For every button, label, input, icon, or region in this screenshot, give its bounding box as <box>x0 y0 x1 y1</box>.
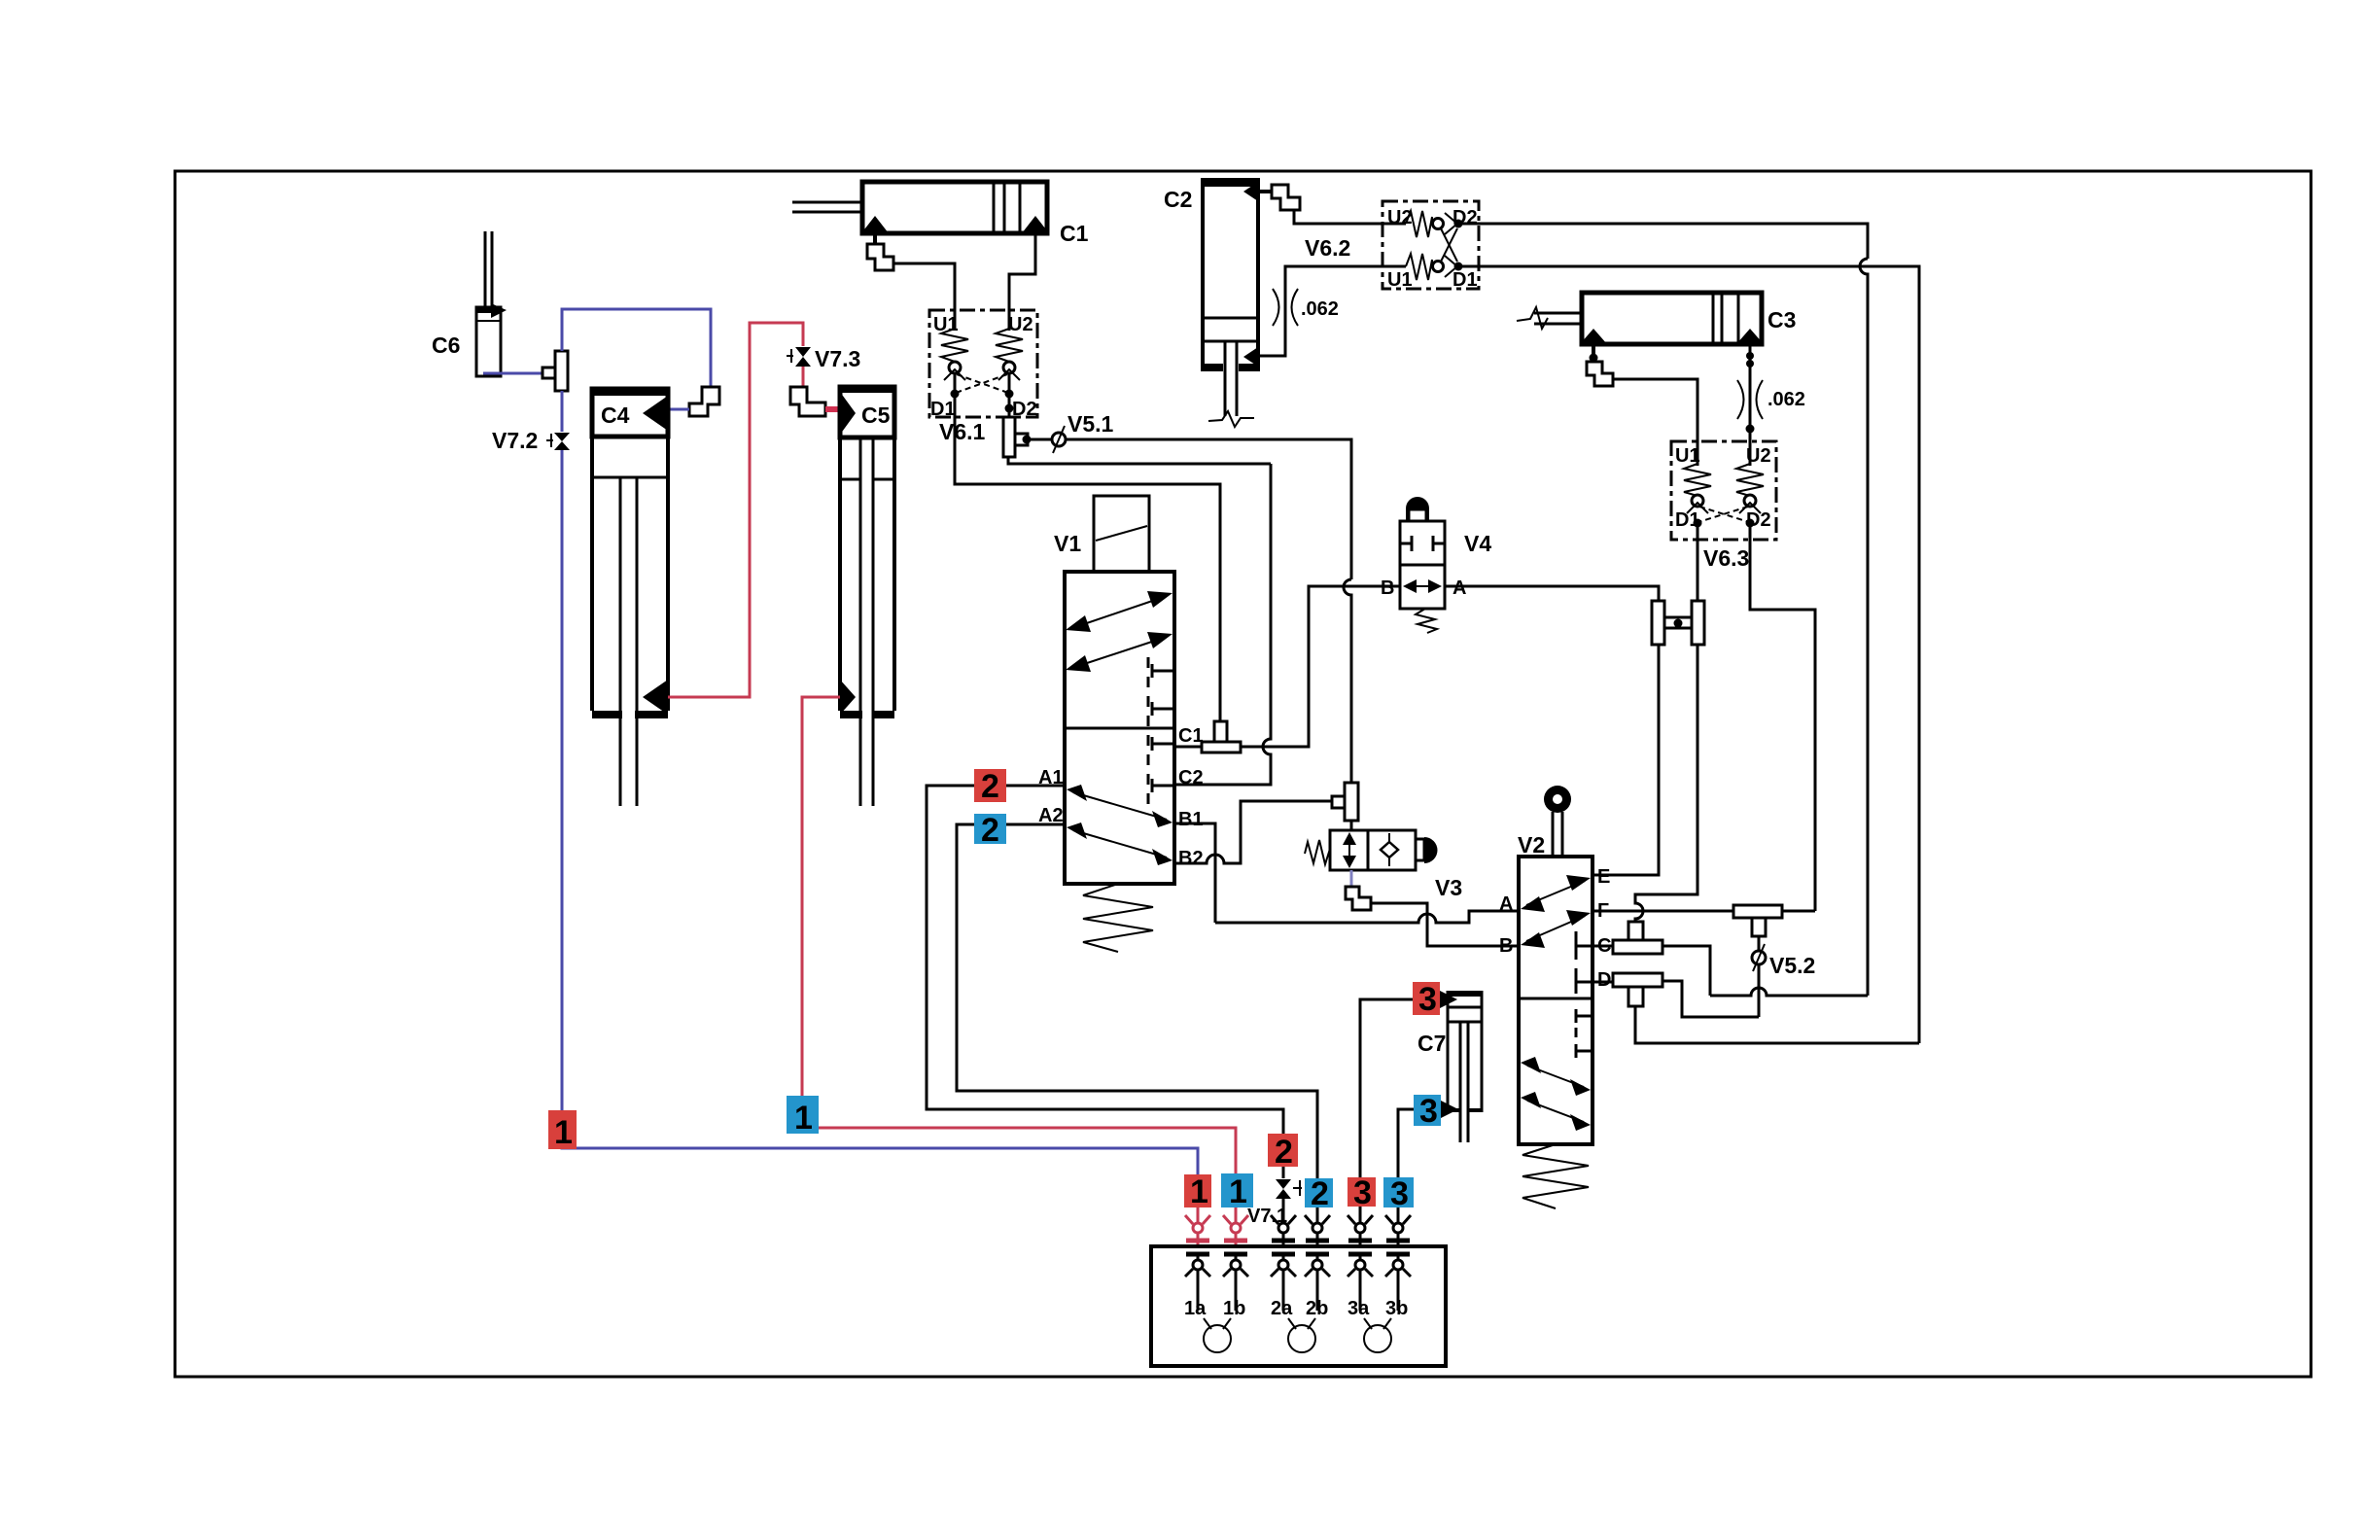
red wire V7.3 down to elbow <box>802 367 805 389</box>
wire V6.2 D2 right then down right rail <box>1458 224 1868 259</box>
svg-text:V7.2: V7.2 <box>492 428 538 453</box>
hop on rail at y=274 then down to 1024 <box>1860 259 1868 996</box>
wire V1 C2 port right and up rail with hop at C1 line <box>1174 464 1271 785</box>
elbow fitting at C4 top <box>689 387 719 416</box>
svg-text:.062: .062 <box>1767 389 1805 410</box>
wire D tee right branch to V5.2 bottom <box>1662 981 1759 1017</box>
svg-text:D1: D1 <box>930 399 956 420</box>
shutoff valve V7.3 <box>787 346 860 371</box>
wire C2 bottom port through orifice to V6.2 U1 <box>1258 266 1406 356</box>
wire hop at (1390,603) then down to tee above V3 <box>1344 579 1351 785</box>
svg-text:B: B <box>1499 935 1513 957</box>
svg-text:C1: C1 <box>1060 221 1089 246</box>
svg-text:C6: C6 <box>432 332 460 358</box>
cylinder C6 <box>432 231 507 376</box>
wire C1 left port to elbow <box>873 233 877 245</box>
svg-text:V5.2: V5.2 <box>1769 953 1815 978</box>
red stub elbow to C5 <box>825 406 841 412</box>
net label red 3 at C7 top with arrow <box>1413 981 1457 1018</box>
net label red 2 above V7.1 <box>1268 1134 1298 1171</box>
blue wire elbow to C4 arrow <box>668 408 689 411</box>
net label red 2 at V1 A1 <box>974 768 1006 805</box>
cylinder C1 <box>792 182 1089 246</box>
red wire C5 bottom down to manifold 1b <box>802 697 1236 1178</box>
wire V5.1 to vertical at 1390 <box>1066 439 1351 579</box>
tee fitting below V6.1 D2 <box>1003 417 1032 457</box>
wire V4 B left, hop handled on vertical, to corner then down to C1 tee line <box>1241 586 1400 747</box>
wire elbow down then right to V6.2 U2 <box>1294 210 1406 224</box>
tee fitting on D line of V2 <box>1613 973 1662 1006</box>
svg-text:C7: C7 <box>1417 1031 1446 1056</box>
svg-text:3: 3 <box>1419 1093 1438 1130</box>
wire V2 C port to tee <box>1592 945 1613 948</box>
wire elbow to V6.1 U1 <box>894 263 955 331</box>
svg-text:1: 1 <box>554 1114 573 1151</box>
svg-text:3: 3 <box>1353 1174 1372 1211</box>
svg-text:1a: 1a <box>1184 1298 1207 1319</box>
tee fitting right of C6 <box>542 351 568 391</box>
tee fitting on C1 line <box>1202 721 1241 752</box>
wire V3 elbow to V2 B <box>1371 903 1519 946</box>
svg-text:D: D <box>1597 969 1611 991</box>
wire V6.3 D2 down right then down to F line <box>1750 527 1815 911</box>
net label red 1 at manifold 1a <box>1184 1173 1211 1210</box>
net label red 3 at manifold 3a <box>1347 1174 1376 1211</box>
valve V4 pushbutton 2/2 <box>1381 497 1491 633</box>
svg-text:C1: C1 <box>1178 725 1204 747</box>
wire V6.3 D1 down to H fitting <box>1697 527 1699 603</box>
svg-text:B1: B1 <box>1178 809 1204 830</box>
svg-text:V1: V1 <box>1054 531 1081 556</box>
red wire C4 bottom up to V7.3 <box>668 323 803 697</box>
net label blue 1 at manifold 1b <box>1221 1173 1253 1210</box>
net label blue 3 at C7 bottom with arrow <box>1414 1093 1458 1130</box>
wire V6.2 D1 right to second rail <box>1458 266 1919 1043</box>
net label blue 1 on red wire <box>787 1096 819 1137</box>
svg-text:C4: C4 <box>601 402 630 428</box>
valve V2 lever stack <box>1499 786 1611 1208</box>
elbow fitting under C3 left port <box>1587 362 1613 386</box>
elbow fitting at C2 top <box>1272 185 1300 210</box>
valve V6.2 dual pilot-operated check <box>1305 201 1479 291</box>
wire tee bottom to rail <box>1008 457 1271 464</box>
valve V1 five-position stack <box>1038 496 1204 952</box>
red stubs from boxes 1a 1b to couplings <box>1197 1207 1200 1222</box>
wire D2 of V6.1 to tee below <box>1008 374 1011 419</box>
svg-text:V5.1: V5.1 <box>1067 411 1114 437</box>
svg-text:V4: V4 <box>1464 531 1491 556</box>
svg-text:U1: U1 <box>1387 269 1413 291</box>
elbow fitting under C1 left port <box>867 244 893 270</box>
wire V4 A to H fitting <box>1445 586 1659 601</box>
quick couplings above manifold rim (1a 1b red, rest black) <box>1185 1215 1248 1246</box>
orifice .062 near C2 <box>1273 289 1339 326</box>
svg-text:U2: U2 <box>1008 314 1033 335</box>
wire C tee right then down to 1024 rail junction <box>1662 946 1710 996</box>
svg-text:C3: C3 <box>1767 307 1796 332</box>
wire C6 to tee (blue) <box>483 372 542 375</box>
tee fitting on C line of V2 <box>1613 922 1662 954</box>
valve V6.1 dual pilot-operated check <box>929 310 1037 444</box>
wire V3 bottom to elbow (violet stub) <box>1350 870 1353 887</box>
svg-text:V7.3: V7.3 <box>815 346 860 371</box>
wire C1 right port to V6.1 U2 <box>1009 233 1035 331</box>
net label red 1 on blue wire <box>548 1110 577 1151</box>
net label blue 3 at manifold 3b <box>1383 1175 1414 1212</box>
valve V6.3 dual pilot-operated check <box>1671 441 1776 571</box>
elbow fitting under V3 <box>1346 887 1371 910</box>
svg-text:2: 2 <box>1311 1175 1329 1212</box>
wire C2 top port to elbow <box>1258 190 1272 193</box>
wire elbow to V6.3 U1 <box>1613 379 1697 466</box>
wire D1 of V6.1 down then right to C1 tee <box>955 374 1220 723</box>
svg-text:1b: 1b <box>1223 1298 1245 1319</box>
wire C3 right port through orifice to V6.3 U2 <box>1749 344 1752 466</box>
svg-text:2b: 2b <box>1306 1298 1328 1319</box>
svg-text:C5: C5 <box>861 402 891 428</box>
svg-text:V6.1: V6.1 <box>939 419 986 444</box>
blue wire tee down through V7.2 to manifold 1a <box>562 391 1198 1178</box>
svg-text:1: 1 <box>1229 1173 1247 1210</box>
wire C3 left port to elbow <box>1592 344 1595 362</box>
orifice .062 near C3 <box>1737 380 1805 419</box>
manifold block <box>1151 1246 1446 1366</box>
svg-text:A: A <box>1452 577 1466 599</box>
couplings inside manifold <box>1185 1254 1411 1311</box>
svg-text:V3: V3 <box>1435 875 1462 900</box>
svg-text:2a: 2a <box>1271 1298 1293 1319</box>
wire tee to V3 top <box>1350 821 1353 832</box>
valve V3 pilot check 2/2 <box>1305 830 1462 900</box>
svg-text:B: B <box>1381 577 1394 599</box>
wire V2 D port to tee <box>1592 981 1613 984</box>
check valve V5.1 <box>1052 411 1114 453</box>
svg-text:1: 1 <box>794 1100 813 1137</box>
shutoff valve V7.1 on 2a line <box>1247 1178 1302 1227</box>
wire D tee stem down then right to far rail <box>1635 1006 1919 1043</box>
wire A1 to manifold 2a <box>927 786 1283 1223</box>
svg-text:V6.2: V6.2 <box>1305 235 1350 261</box>
wire manifold 3a up and right to red 3 <box>1360 999 1413 1223</box>
svg-text:D1: D1 <box>1452 269 1478 291</box>
wire tee stub to check V5.1 <box>1027 438 1052 441</box>
cylinder C5 <box>840 387 894 806</box>
wire H right cup down, jog left, hop over F, to C tee stem <box>1635 645 1697 922</box>
check valve V5.2 <box>1752 936 1815 1017</box>
cylinder C2 <box>1164 180 1258 427</box>
svg-text:V6.3: V6.3 <box>1703 545 1749 571</box>
tee fitting above V3 <box>1332 783 1358 821</box>
svg-text:2: 2 <box>1275 1134 1293 1171</box>
H cross fitting <box>1652 601 1704 645</box>
svg-text:V2: V2 <box>1518 832 1545 857</box>
svg-text:1: 1 <box>1190 1173 1208 1210</box>
svg-text:3a: 3a <box>1347 1298 1370 1319</box>
svg-text:2: 2 <box>981 812 999 849</box>
wire V1 B1 to V2 A with hops <box>1174 823 1215 923</box>
black stubs 2a 2b 3a 3b <box>1282 1198 1285 1222</box>
border frame <box>175 171 2311 1377</box>
wire A2 to manifold 2b <box>957 824 1317 1223</box>
cylinder C7 <box>1417 991 1482 1142</box>
svg-text:A: A <box>1499 893 1513 915</box>
net label blue 2 at V1 A2 <box>974 812 1006 849</box>
net label blue 2 at manifold 2b <box>1305 1175 1333 1212</box>
wire 1024 rail with hop over V5.2 line <box>1710 988 1868 996</box>
elbow fitting left of C5 <box>790 387 825 416</box>
svg-text:3b: 3b <box>1385 1298 1408 1319</box>
wire V1 C1 port to tee <box>1174 746 1202 749</box>
wire manifold 3b up and right to blue 3 <box>1398 1109 1414 1223</box>
svg-text:3: 3 <box>1390 1175 1409 1212</box>
blue wire tee up over to C4 elbow <box>562 309 711 387</box>
svg-text:B2: B2 <box>1178 848 1204 869</box>
wire V1 B2 up to tee above V3 <box>1174 801 1332 863</box>
svg-text:.062: .062 <box>1301 298 1339 320</box>
cylinder C4 <box>592 389 668 806</box>
manifold gauge circles <box>1204 1318 1391 1352</box>
svg-text:E: E <box>1597 866 1610 888</box>
tee fitting on F line above V5.2 <box>1733 905 1782 936</box>
svg-text:3: 3 <box>1418 981 1437 1018</box>
shutoff valve V7.2 <box>492 428 572 453</box>
svg-text:2: 2 <box>981 768 999 805</box>
cylinder C3 <box>1517 293 1796 344</box>
svg-text:C2: C2 <box>1164 187 1192 212</box>
wire H left cup down to V2 E <box>1592 645 1659 875</box>
wire V2 F long line to 1867 <box>1592 910 1815 913</box>
